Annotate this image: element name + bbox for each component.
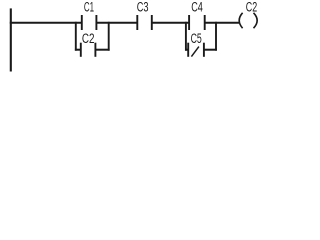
- svg-text:C4: C4: [191, 0, 203, 16]
- contact C4 right bar: [204, 15, 206, 30]
- wire rung1 rail to C1: [10, 22, 82, 24]
- contact C2 right bar: [94, 43, 96, 57]
- contact C3 right bar: [151, 15, 153, 30]
- left power rail: [10, 8, 12, 71]
- svg-text:C5: C5: [191, 31, 202, 47]
- branch2 wire to C5: [185, 49, 188, 51]
- contact C1 left bar: [81, 15, 83, 30]
- wire C1 to C3: [96, 22, 137, 24]
- branch1 right vertical: [108, 22, 110, 51]
- svg-text:C3: C3: [137, 0, 149, 16]
- contact C5 left bar: [187, 43, 189, 57]
- coil C2 left paren: [239, 13, 242, 28]
- svg-text:C2: C2: [246, 0, 257, 16]
- branch2 left vertical: [185, 22, 187, 51]
- coil C2 right paren: [254, 13, 258, 28]
- svg-text:C2: C2: [82, 31, 95, 47]
- contact C5 right bar: [203, 43, 205, 57]
- wire C4 to coil: [205, 22, 239, 24]
- contact C5 NC slash: [191, 47, 199, 57]
- contact C1 right bar: [95, 15, 97, 30]
- branch2 right vertical: [215, 22, 217, 51]
- svg-text:C1: C1: [84, 0, 94, 16]
- contact C2 left bar: [80, 43, 82, 57]
- contact C3 left bar: [136, 15, 138, 30]
- branch1 wire C2 to junction: [95, 49, 109, 51]
- contact C4 left bar: [188, 15, 190, 30]
- branch2 wire C5 to junction: [204, 49, 217, 51]
- branch1 left vertical: [75, 22, 77, 51]
- wire C3 to C4: [152, 22, 189, 24]
- branch1 wire to C2: [75, 49, 81, 51]
